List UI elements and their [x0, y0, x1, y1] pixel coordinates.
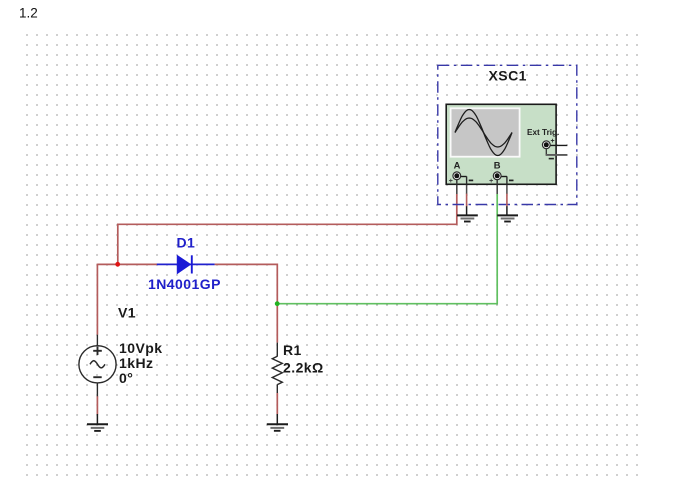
- junction node red dot: [115, 262, 120, 267]
- wire: main horizontal red left part (junction to diode anode lead): [97, 263, 157, 265]
- resistor R1: [272, 343, 282, 393]
- wire: V1 bottom red segment: [96, 396, 98, 414]
- channel B terminal: [489, 159, 513, 185]
- svg-text:Ext Trig.: Ext Trig.: [527, 128, 559, 137]
- ground below R1: [267, 414, 288, 431]
- svg-text:V1: V1: [118, 305, 136, 321]
- svg-text:10Vpk: 10Vpk: [119, 340, 163, 356]
- wire: resistor bottom red segment: [276, 393, 278, 414]
- oscilloscope icon body: [446, 104, 556, 184]
- svg-text:1N4001GP: 1N4001GP: [148, 276, 221, 292]
- wire minus A: gray/red/black down to ground: [466, 176, 468, 194]
- wire: red from junction up to scope feed corner: [118, 194, 457, 264]
- wire minus B: gray/red/black down to ground: [506, 176, 508, 194]
- screen trace large: [455, 110, 512, 156]
- svg-text:A: A: [454, 159, 461, 170]
- wires below scope: channel A gray/red: [456, 179, 458, 194]
- ground below V1: [87, 414, 108, 431]
- oscilloscope dashed enclosure XSC1: [438, 65, 577, 204]
- svg-text:2.2kΩ: 2.2kΩ: [283, 360, 324, 376]
- svg-text:1kHz: 1kHz: [119, 355, 153, 371]
- ground below scope B: [497, 215, 518, 221]
- svg-text:0°: 0°: [119, 370, 133, 386]
- svg-text:D1: D1: [177, 235, 196, 251]
- ground below scope A: [457, 215, 478, 221]
- source V1: [79, 335, 116, 397]
- svg-text:+: +: [489, 178, 493, 185]
- scope pin stubs inside icon: [456, 179, 458, 185]
- svg-text:R1: R1: [283, 342, 302, 358]
- ext trig terminal: [542, 138, 567, 159]
- svg-text:+: +: [449, 178, 453, 185]
- svg-text:B: B: [494, 159, 501, 170]
- svg-text:XSC1: XSC1: [489, 68, 527, 84]
- wire: red diode cathode to resistor corner: [215, 264, 278, 303]
- svg-text:+: +: [551, 138, 555, 145]
- wire: resistor top red segment: [276, 304, 278, 343]
- screen trace small: [455, 118, 512, 147]
- wires below scope: channel B gray: [496, 179, 498, 194]
- junction node green dot: [275, 301, 280, 306]
- oscilloscope screen: [451, 108, 520, 156]
- diode D1 1N4001GP: [157, 255, 215, 274]
- wire: red down to V1: [96, 264, 98, 335]
- wire: green from node to scope channel B: [277, 194, 497, 304]
- svg-text:1.2: 1.2: [19, 6, 38, 21]
- channel A terminal: [449, 159, 474, 185]
